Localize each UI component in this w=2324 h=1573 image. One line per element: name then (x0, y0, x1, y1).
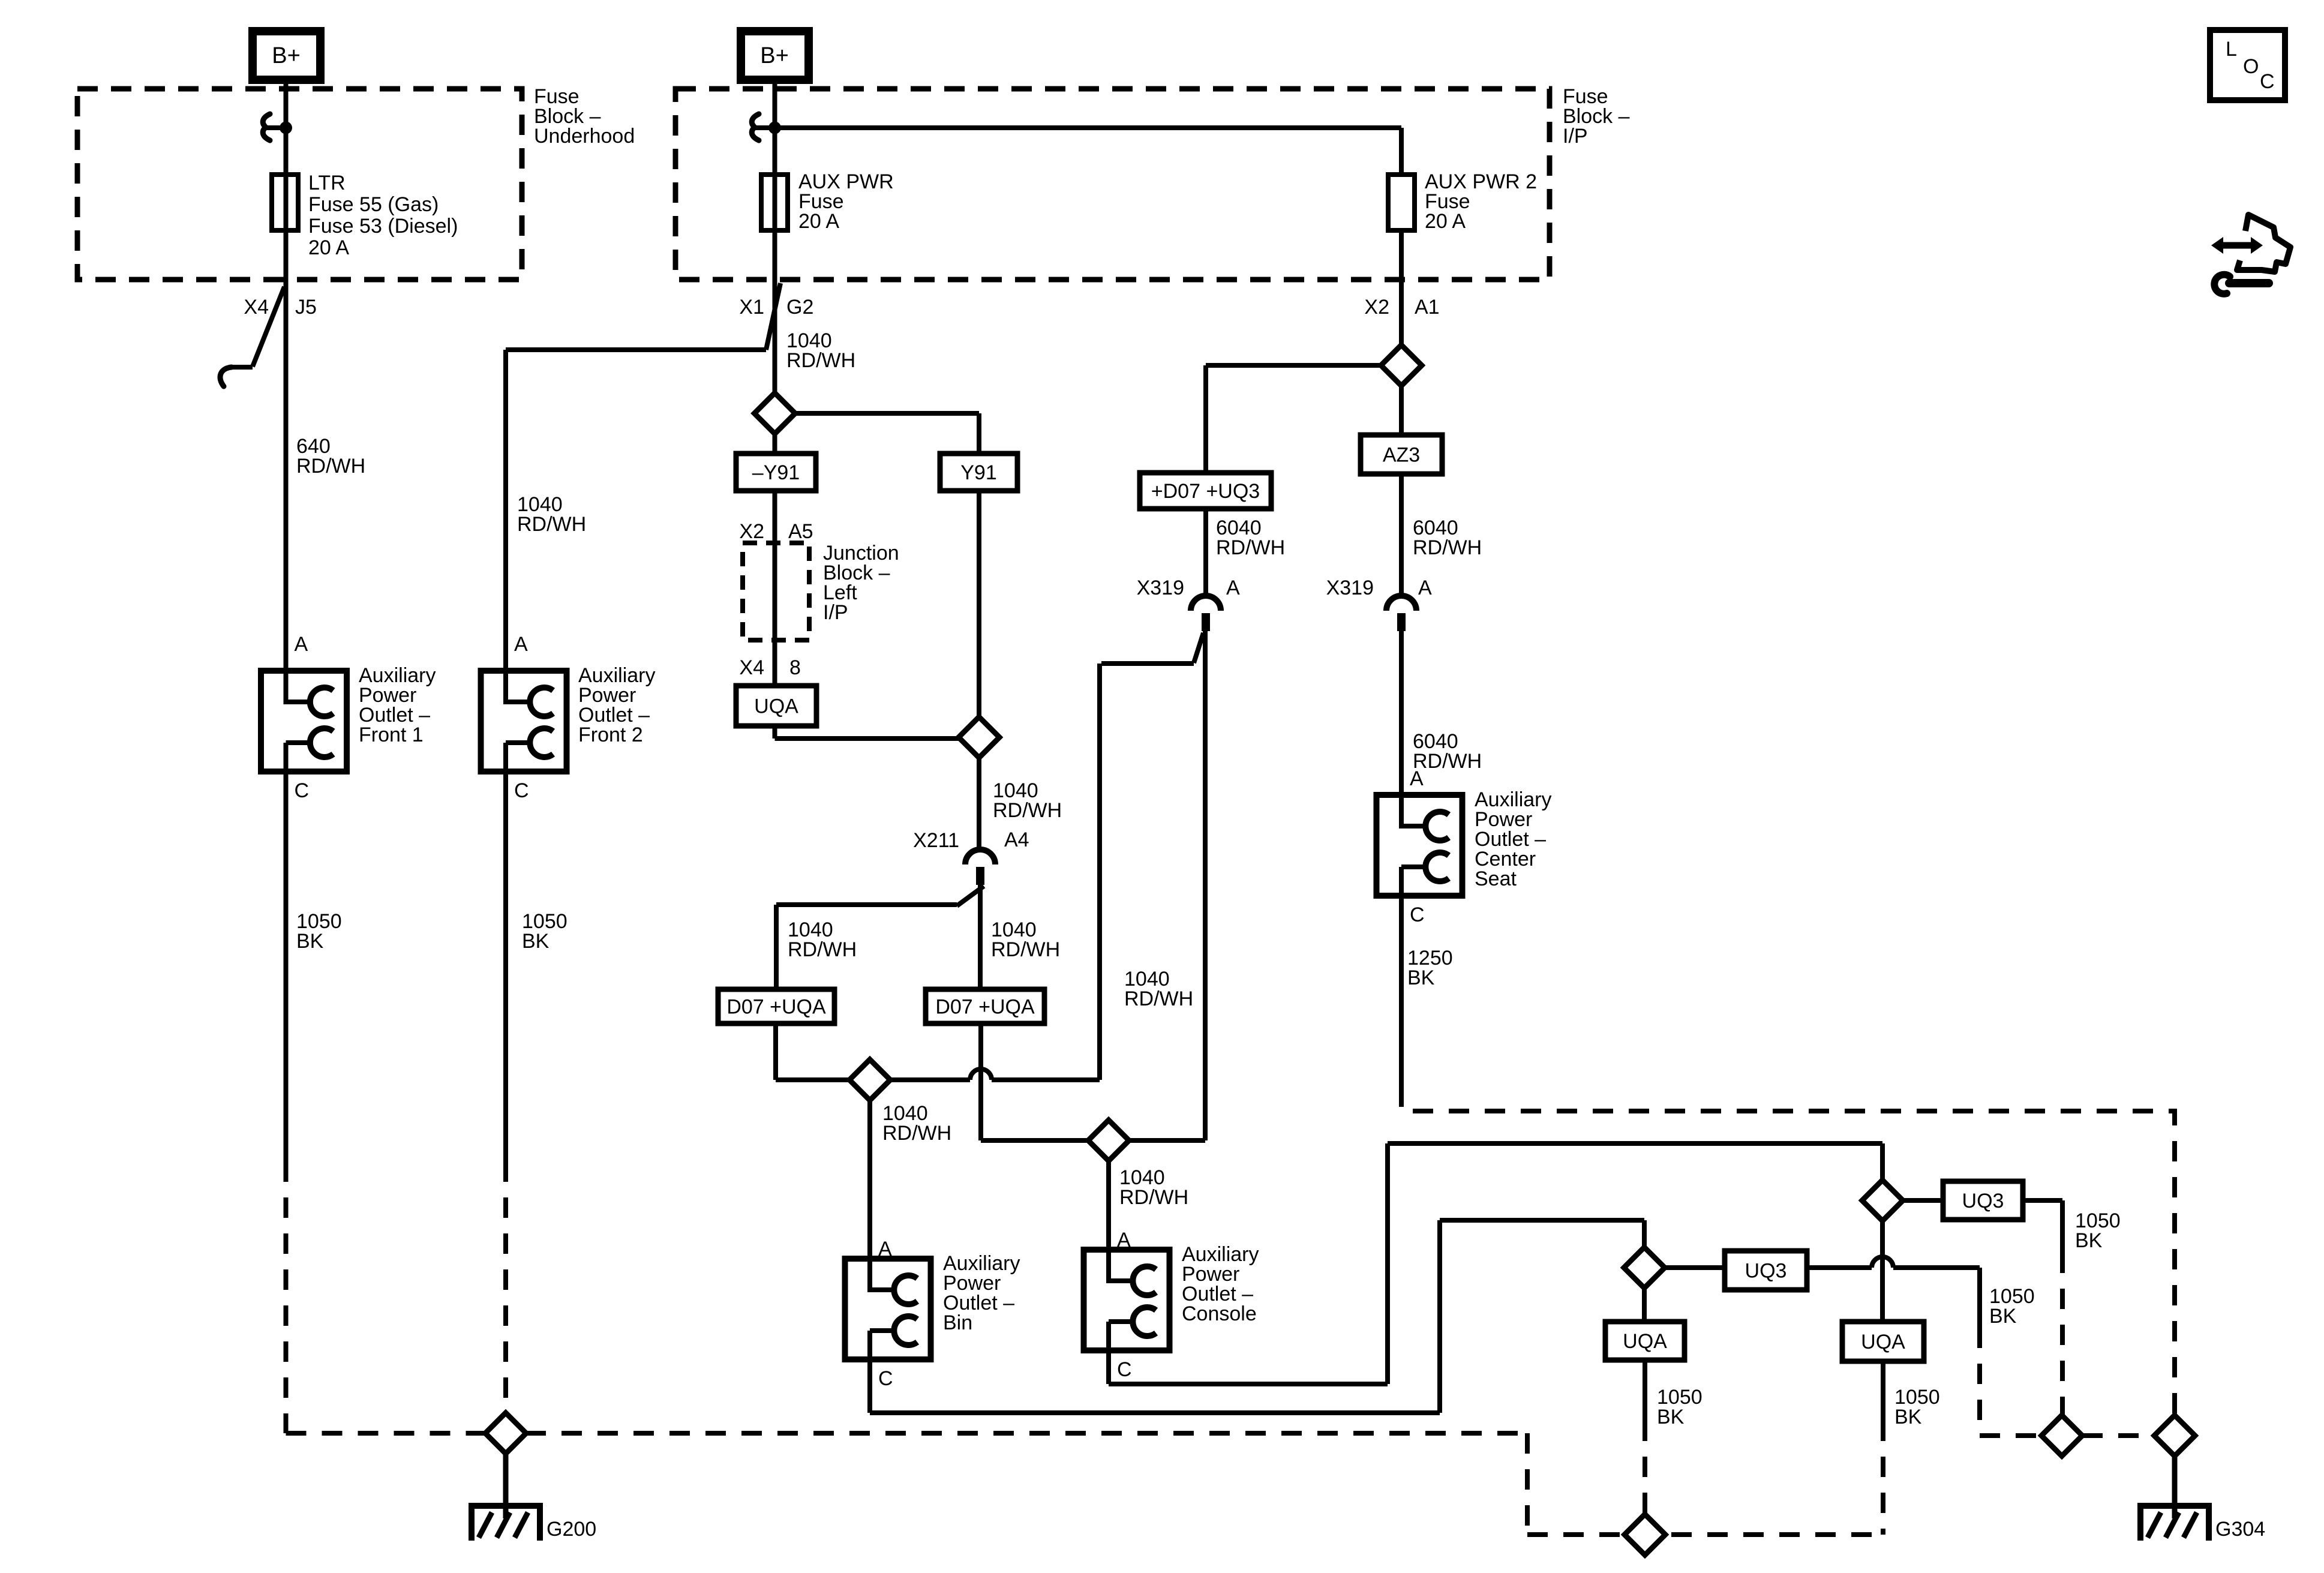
svg-text:Bin: Bin (943, 1311, 972, 1334)
wire splice to AZ3 (1399, 386, 1404, 435)
svg-text:RD/WH: RD/WH (991, 938, 1060, 961)
connector X211 pin A4 (965, 849, 995, 864)
junction block left I/P dashed boundary (743, 543, 809, 640)
svg-text:Seat: Seat (1475, 867, 1517, 890)
wire bus to AUX PWR 2 (775, 125, 1402, 130)
wire B+2 down (773, 80, 777, 393)
wire +D07+UQ3 to X319 (1203, 509, 1208, 595)
wire splice link 2 (753, 125, 770, 130)
wire splice to +D07 +UQ3 (1206, 363, 1381, 368)
svg-text:B+: B+ (272, 43, 301, 68)
wire X211 to D07+UQA (right) (978, 885, 983, 989)
splice S200 A (755, 393, 795, 434)
wire D07+UQA left down (773, 1023, 778, 1080)
svg-text:RD/WH: RD/WH (788, 938, 857, 961)
component Auxiliary Power Outlet Bin (845, 1259, 931, 1359)
svg-text:C: C (1410, 903, 1425, 926)
wire splice S205 to UQA right (1880, 1221, 1885, 1322)
svg-text:C: C (295, 779, 310, 802)
wire bin C to splice S203 (1440, 1218, 1644, 1223)
fuse block I/P dashed boundary (675, 89, 1550, 280)
wire dashed UQA right to bus (1881, 1421, 1885, 1535)
svg-text:A: A (514, 633, 528, 656)
option box UQA (top) (736, 686, 816, 726)
wire branch left (776, 902, 957, 907)
wire drop to splice S205 (1880, 1143, 1885, 1180)
connector slash X319 left (1194, 633, 1203, 663)
splice mark S1 (263, 114, 270, 140)
svg-text:A: A (295, 633, 308, 656)
svg-text:BK: BK (1989, 1305, 2017, 1328)
wire UQA down (773, 726, 777, 739)
svg-text:Front 2: Front 2 (578, 724, 643, 746)
wire hop over D07 right drop (970, 1069, 992, 1080)
wire UQ3 mid right (1807, 1265, 1872, 1270)
wire drop +D07 +UQ3 (1203, 365, 1208, 473)
svg-text:A: A (1226, 577, 1240, 599)
svg-text:Fuse 55 (Gas): Fuse 55 (Gas) (308, 193, 439, 216)
power B+ terminal 1 (253, 31, 320, 80)
svg-text:Underhood: Underhood (534, 125, 635, 148)
wire bin C riser (1437, 1220, 1442, 1413)
svg-text:D07 +UQA: D07 +UQA (935, 996, 1035, 1019)
svg-text:D07 +UQA: D07 +UQA (726, 996, 826, 1019)
svg-text:RD/WH: RD/WH (296, 455, 365, 478)
svg-text:BK: BK (1894, 1406, 1922, 1428)
wire fuse AUX PWR 2 down (1399, 230, 1404, 345)
connector slash X1 (766, 283, 780, 350)
splice to G200 (485, 1413, 526, 1454)
svg-text:G200: G200 (547, 1518, 596, 1541)
wire bin C across (870, 1410, 1440, 1415)
splice mark S2 (752, 114, 759, 140)
option box +D07 +UQ3 (1140, 473, 1271, 509)
svg-text:8: 8 (789, 656, 801, 679)
off-page stub (232, 365, 253, 370)
svg-text:BK: BK (296, 930, 324, 953)
connector slash X4 (253, 287, 284, 367)
wire X319 to outlet Center Seat (1399, 631, 1404, 795)
svg-text:BK: BK (1657, 1406, 1685, 1428)
fuse LTR (Fuse 55 Gas / 53 Diesel) 20A (272, 175, 298, 230)
wire drop to splice S203 (1642, 1220, 1647, 1247)
dashed ground bus to G200 (526, 1431, 1527, 1436)
svg-text:I/P: I/P (823, 601, 848, 624)
svg-text:+D07 +UQ3: +D07 +UQ3 (1151, 480, 1260, 503)
junction dot J2 (768, 122, 781, 134)
svg-text:UQA: UQA (1861, 1331, 1905, 1353)
wire hop over S205 drop (1872, 1257, 1893, 1268)
wire riser to X319 branch (1097, 664, 1102, 1080)
wire splice to X211 (977, 758, 981, 849)
option box UQA (left) (1605, 1322, 1685, 1360)
wire UQ3 top drop (2060, 1200, 2065, 1253)
svg-text:G2: G2 (786, 296, 813, 319)
wire center seat C 1250 BK (1399, 896, 1404, 1086)
svg-text:X2: X2 (739, 520, 764, 543)
wire Y91 drop (977, 413, 981, 454)
wire console C riser (1385, 1143, 1390, 1384)
ground G200 (503, 1454, 509, 1518)
wire into splice S202 (776, 1077, 849, 1082)
wire console C down (1106, 1350, 1111, 1384)
svg-text:X4: X4 (739, 656, 764, 679)
wire dashed UQ3 top to splice S206 (2060, 1253, 2065, 1415)
wire drop to fuse AUX PWR 2 (1399, 128, 1404, 175)
wire D07+UQA right down (978, 1023, 983, 1140)
svg-text:RD/WH: RD/WH (1124, 987, 1193, 1010)
option box AZ3 (1361, 435, 1442, 474)
option box D07+UQA (right) (926, 989, 1044, 1023)
svg-text:UQA: UQA (754, 695, 798, 718)
wire splice link 1 (265, 125, 281, 130)
wire front2 ground dashed (503, 1161, 508, 1413)
svg-text:20 A: 20 A (798, 210, 839, 233)
splice S207 on bus (1625, 1514, 1665, 1555)
wire corner down (1977, 1268, 1982, 1328)
connector X319 pin A (right) (1386, 596, 1416, 611)
svg-text:UQ3: UQ3 (1745, 1260, 1787, 1283)
wire to Y91 branch (795, 411, 980, 416)
svg-text:A4: A4 (1004, 828, 1029, 851)
wire drop to D07+UQA (left) (774, 905, 779, 989)
svg-text:A: A (878, 1238, 892, 1260)
component Auxiliary Power Outlet Front 2 (481, 671, 567, 772)
wire into splice S204 (981, 1138, 1088, 1143)
ground G304 (2172, 1454, 2178, 1518)
wire UQA to splice (775, 736, 959, 741)
svg-text:Front 1: Front 1 (359, 724, 424, 746)
connector X319 pin A (left) (1191, 596, 1221, 611)
wire front1 C 1050 BK (284, 772, 289, 1161)
svg-text:AZ3: AZ3 (1383, 444, 1420, 467)
svg-text:Console: Console (1182, 1302, 1257, 1325)
fuse block underhood dashed boundary (77, 89, 522, 280)
svg-text:BK: BK (1407, 966, 1435, 989)
svg-text:20 A: 20 A (308, 236, 349, 259)
svg-text:X319: X319 (1137, 577, 1184, 599)
wire to corner (1893, 1265, 1980, 1270)
splice S203 (1624, 1247, 1665, 1288)
svg-text:G304: G304 (2215, 1518, 2265, 1541)
wire splice to X319 riser (1130, 1138, 1205, 1143)
wire dashed S206 to S208 (2082, 1433, 2154, 1438)
wire UQA right down (1881, 1361, 1885, 1421)
component Auxiliary Power Outlet Center Seat (1377, 795, 1463, 896)
power B+ terminal 2 (741, 31, 809, 80)
component Auxiliary Power Outlet Console (1084, 1250, 1170, 1350)
svg-text:BK: BK (2075, 1229, 2103, 1252)
wire splice to UQ3 mid (1665, 1265, 1725, 1270)
svg-text:RD/WH: RD/WH (1216, 536, 1285, 559)
splice S205 (1862, 1180, 1903, 1221)
svg-text:C: C (1117, 1358, 1132, 1381)
svg-text:L: L (2226, 38, 2237, 61)
svg-text:A1: A1 (1415, 296, 1440, 319)
option box Y91 (940, 454, 1017, 491)
svg-text:LTR: LTR (308, 172, 346, 194)
wire front1 ground dashed (284, 1161, 289, 1433)
svg-text:X4: X4 (244, 296, 269, 319)
wire dashed center seat to G304 splice (1401, 1086, 2175, 1415)
svg-text:RD/WH: RD/WH (993, 799, 1062, 822)
connector slash X211 (957, 886, 984, 906)
svg-text:C: C (514, 779, 529, 802)
wire dashed to G200 splice (286, 1431, 486, 1436)
option box -Y91 (736, 454, 816, 491)
svg-text:X1: X1 (739, 296, 764, 319)
svg-text:Y91: Y91 (960, 461, 997, 484)
wire bin C down (867, 1359, 872, 1413)
wire X319-A down to splice (1203, 631, 1208, 1140)
svg-text:–Y91: –Y91 (752, 461, 800, 484)
svg-text:A: A (1117, 1229, 1131, 1251)
option box UQA (right) (1842, 1322, 1924, 1361)
svg-text:RD/WH: RD/WH (882, 1122, 951, 1145)
wire splice S203 to UQA left (1642, 1288, 1647, 1322)
svg-text:J5: J5 (295, 296, 317, 319)
splice S204 (1088, 1120, 1129, 1161)
option box D07+UQA (left) (718, 989, 834, 1023)
option box UQ3 (mid) (1725, 1251, 1807, 1290)
svg-text:X2: X2 (1364, 296, 1389, 319)
svg-text:B+: B+ (760, 43, 789, 68)
component Auxiliary Power Outlet Front 1 (261, 671, 347, 772)
fuse AUX PWR 20A (761, 175, 788, 230)
svg-text:UQ3: UQ3 (1962, 1190, 2004, 1212)
wire console C top bus (1388, 1141, 1882, 1146)
svg-text:C: C (878, 1367, 893, 1390)
option box UQ3 (top) (1943, 1181, 2023, 1220)
svg-text:A: A (1418, 577, 1432, 599)
wire front2 C 1050 BK (503, 772, 508, 1161)
wire dashed to splice S206 (1977, 1328, 1982, 1436)
wire X319 branch across (1101, 661, 1194, 666)
service/location icon (2223, 242, 2253, 249)
svg-text:Fuse 53 (Diesel): Fuse 53 (Diesel) (308, 215, 458, 238)
wire splice to outlet Bin (867, 1100, 872, 1259)
wire B+1 to outlet Front 1 (640 RD/WH) (284, 80, 289, 671)
svg-text:RD/WH: RD/WH (1413, 536, 1482, 559)
svg-text:RD/WH: RD/WH (517, 513, 586, 536)
wire splice to G304 (2172, 1456, 2177, 1518)
svg-text:RD/WH: RD/WH (786, 349, 855, 372)
wire dashed into splice S206 (1980, 1433, 2041, 1438)
LOC reference box (2210, 30, 2285, 100)
splice S201 (959, 717, 999, 758)
splice S202 (849, 1059, 890, 1100)
wire -Y91 drop (773, 434, 777, 454)
svg-text:A: A (1410, 767, 1424, 790)
svg-text:X319: X319 (1326, 577, 1374, 599)
fuse AUX PWR 2 20A (1388, 175, 1415, 230)
wire UQ3 top right (2023, 1198, 2062, 1203)
wire splice to outlet Console (1106, 1161, 1111, 1250)
wire front2 feed (503, 350, 508, 671)
svg-text:UQA: UQA (1623, 1330, 1667, 1353)
svg-text:A5: A5 (788, 520, 813, 543)
wire Y91 to splice (977, 491, 981, 717)
wire splice to riser (890, 1077, 970, 1082)
splice S208 (2154, 1415, 2195, 1456)
splice S206 (2041, 1415, 2082, 1456)
wire console C across (1109, 1382, 1388, 1386)
wire X1/G2 branch to front2 (1040 RD/WH) (506, 347, 766, 352)
svg-text:BK: BK (522, 930, 550, 953)
junction dot J1 (280, 122, 292, 134)
svg-text:X211: X211 (913, 829, 959, 852)
wire dashed UQA left to bus (1643, 1421, 1647, 1514)
svg-text:C: C (2260, 70, 2275, 93)
wire to riser corner (992, 1077, 1100, 1082)
svg-text:RD/WH: RD/WH (1119, 1186, 1188, 1209)
off-page hook (220, 367, 232, 386)
svg-text:I/P: I/P (1563, 125, 1588, 148)
wire AZ3 to X319 (1399, 474, 1404, 595)
svg-text:O: O (2243, 55, 2259, 78)
wire UQA left down (1643, 1360, 1647, 1421)
splice S209 (1381, 345, 1422, 386)
wire -Y91 to UQA (773, 491, 777, 686)
wire splice to UQ3 top (1902, 1198, 1943, 1203)
svg-text:20 A: 20 A (1425, 210, 1466, 233)
